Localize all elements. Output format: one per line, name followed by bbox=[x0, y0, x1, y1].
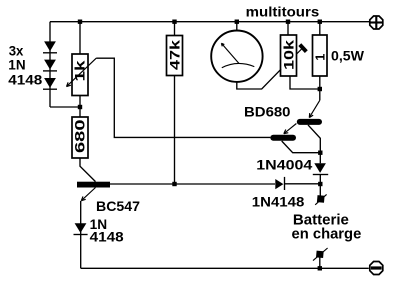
svg-text:4148: 4148 bbox=[8, 72, 43, 87]
svg-text:3x: 3x bbox=[9, 44, 24, 59]
wire: 47k bottom lead down to collector rail bbox=[174, 76, 176, 185]
svg-text:680: 680 bbox=[72, 119, 88, 153]
wire: meter bottom to 10k wiper (down, right, diagonal) bbox=[237, 69, 281, 89]
junction: 47k / collector rail bbox=[172, 182, 176, 186]
diode D2 (1N4148 chain middle) bbox=[43, 60, 57, 71]
diode D4 (1N4148 vertical) bbox=[74, 223, 88, 234]
wire: bottom return rail bbox=[81, 267, 369, 269]
resistor R3 47k body bbox=[167, 36, 183, 76]
resistor R2 680 body bbox=[72, 117, 88, 158]
wire: 1k wiper to BD680 base (right, down, right) bbox=[96, 58, 270, 137]
wire: left diode-chain vertical bbox=[49, 22, 51, 107]
potentiometer R4 10k body bbox=[281, 35, 297, 76]
wire: meter top lead bbox=[236, 22, 238, 31]
transistor Q1 (BD680) base bar bbox=[297, 119, 322, 125]
wire: node C to diode D6 bbox=[319, 153, 321, 164]
wire: R5 bottom lead to node B bbox=[319, 76, 321, 89]
wire: Q2 collector to node C bbox=[282, 141, 321, 153]
terminal: plus output bbox=[370, 16, 383, 29]
junction: node C bbox=[318, 151, 322, 155]
connector flag: battery negative tap bbox=[313, 248, 328, 268]
svg-text:BD680: BD680 bbox=[244, 105, 291, 120]
wire: D6 cathode to node D bbox=[319, 175, 321, 185]
meter M1 scale arc bbox=[222, 63, 255, 67]
svg-text:en charge: en charge bbox=[292, 227, 362, 243]
diode D6 (1N4004) bbox=[313, 163, 328, 174]
wire: R5 top lead bbox=[319, 22, 321, 35]
diode D3 (1N4148 chain bottom) bbox=[43, 78, 57, 89]
transistor Q2 (BD680 second stage) base bar bbox=[270, 135, 296, 141]
junction: top rail / 47k bbox=[172, 20, 176, 24]
svg-text:BC547: BC547 bbox=[96, 199, 140, 214]
label "3x 1N 4148" bbox=[8, 44, 43, 88]
terminal: minus output bbox=[370, 262, 383, 275]
diode D1 (1N4148 chain top) bbox=[43, 41, 57, 52]
transistor Q3 BC547: base lead from 680 bbox=[80, 158, 96, 182]
wire: D5 cathode to node D bbox=[285, 183, 321, 185]
svg-text:1N: 1N bbox=[8, 58, 25, 73]
potentiometer R1 wiper arrow bbox=[67, 58, 97, 86]
wire: 10k bottom lead to node B bbox=[290, 76, 320, 89]
svg-text:1: 1 bbox=[313, 54, 327, 61]
svg-text:4148: 4148 bbox=[90, 230, 125, 245]
potentiometer R1 1k body bbox=[72, 54, 88, 96]
potentiometer R4 trimmer T-arrow bbox=[297, 45, 307, 54]
transistor Q1-Q2 interstage lead with arrow bbox=[284, 124, 297, 134]
svg-text:47k: 47k bbox=[167, 40, 183, 70]
junction: top rail / 10k bbox=[286, 20, 290, 24]
transistor Q3 emitter lead with arrow bbox=[81, 188, 95, 201]
junction: node D bbox=[318, 182, 322, 186]
junction: top rail / meter bbox=[235, 20, 239, 24]
junction: node E (bottom rail / flag) bbox=[318, 266, 322, 270]
label "Batterie en charge" bbox=[292, 212, 362, 242]
wire: Q3 emitter down through D4 to bottom rail bbox=[80, 201, 82, 268]
junction: top rail / R5 bbox=[318, 20, 322, 24]
wire: top supply rail bbox=[50, 21, 369, 23]
wire: 47k top lead bbox=[174, 22, 176, 36]
transistor Q3 base bar bbox=[77, 182, 110, 188]
connector flag: battery positive tap bbox=[315, 184, 326, 205]
wire: 10k pot top lead bbox=[287, 22, 289, 35]
label "1N 4148" (D4) bbox=[90, 217, 125, 245]
svg-text:1N4148: 1N4148 bbox=[252, 194, 305, 209]
junction: top rail / 1k pot bbox=[78, 20, 82, 24]
svg-text:1N4004: 1N4004 bbox=[256, 158, 313, 173]
wire: BC547 collector rail to D5 bbox=[110, 183, 275, 185]
wire: chain bottom horizontal to node A bbox=[50, 106, 80, 108]
meter M1 needle bbox=[221, 43, 238, 63]
transistor Q1 (BD680 first stage) emitter lead with arrow bbox=[309, 89, 320, 118]
svg-text:10k: 10k bbox=[280, 40, 296, 70]
resistor R5 1 ohm body bbox=[313, 35, 328, 76]
diode D5 (1N4148 horizontal) bbox=[275, 177, 284, 190]
wire: 1k pot top lead bbox=[79, 22, 81, 54]
junction: node A (chain bottom / pot bottom) bbox=[78, 105, 82, 109]
junction: node B (10k / R5 / BD680 emitter) bbox=[318, 87, 322, 91]
svg-text:multitours: multitours bbox=[246, 5, 320, 20]
wire: 1k pot bottom lead to 680 bbox=[79, 96, 81, 118]
wire: Q1 collector to node C bbox=[308, 125, 320, 153]
svg-text:1k: 1k bbox=[72, 60, 88, 81]
svg-text:0,5W: 0,5W bbox=[331, 49, 364, 64]
meter M1 body bbox=[211, 31, 262, 82]
